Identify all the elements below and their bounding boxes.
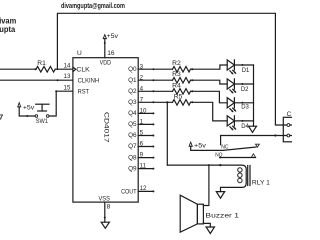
clock wedge on pin 14: [73, 67, 76, 72]
svg-text:R4: R4: [172, 82, 181, 89]
wire Q3 branch down to relay node: [166, 102, 168, 165]
svg-text:D2: D2: [241, 86, 249, 93]
ground below buzzer: [206, 227, 214, 234]
svg-text:7: 7: [0, 112, 3, 121]
relay core bars: [247, 166, 249, 186]
svg-text:RST: RST: [78, 89, 89, 96]
LED D2: [227, 79, 253, 94]
wire CLK node to connector (top routed wire): [57, 13, 286, 125]
svg-text:Q6: Q6: [128, 132, 137, 139]
wire R2 to LED D1: [191, 65, 228, 69]
switch SW1 contacts: [35, 115, 38, 118]
connector CON (cut at right edge): [283, 117, 295, 142]
op IC body U1 CD4017: [73, 58, 138, 202]
junction dot buzzer tap: [208, 164, 210, 166]
svg-text:SW1: SW1: [36, 118, 49, 125]
svg-text:C: C: [287, 111, 292, 118]
svg-text:upta: upta: [0, 25, 16, 34]
svg-text:Q7: Q7: [128, 143, 137, 150]
svg-text:Q9: Q9: [128, 165, 137, 172]
connector pin 2 circle: [287, 134, 290, 137]
right side pin numbers: [140, 63, 147, 192]
junction dot on CLK row: [34, 68, 36, 70]
wire pin 15 (RST) to SW1: [49, 91, 73, 116]
buzzer Buzzer1 driver: [197, 204, 203, 224]
svg-text:8: 8: [107, 204, 111, 211]
LED cathode bus: [253, 65, 255, 126]
pin 16 VDD stub: [104, 39, 106, 58]
svg-text:R2: R2: [172, 60, 181, 67]
wire into pin 14 (CLK row): [0, 68, 36, 70]
connector pin 1 circle: [287, 124, 290, 127]
relay coil RLY1 turns: [238, 168, 242, 172]
svg-text:+5v: +5v: [194, 143, 207, 150]
svg-text:16: 16: [107, 50, 115, 57]
svg-text:15: 15: [64, 84, 71, 91]
svg-text:Q5: Q5: [128, 121, 137, 128]
wire buzzer feed: [203, 165, 209, 205]
wire Q1 row: [138, 79, 172, 81]
ground below VSS: [101, 222, 109, 228]
svg-text:U: U: [77, 50, 82, 57]
junction dot NO/coil: [219, 164, 221, 166]
svg-text:divamgupta@gmail.com: divamgupta@gmail.com: [61, 1, 125, 10]
resistor R1: [36, 66, 55, 72]
wire R3 to LED D2: [191, 80, 228, 84]
svg-text:Q0: Q0: [128, 66, 137, 73]
svg-text:D3: D3: [241, 103, 249, 110]
wire into pin 13 (CLKINH row): [0, 79, 73, 81]
junction dot Q3 branch: [166, 101, 168, 103]
svg-text:RLY 1: RLY 1: [252, 180, 271, 186]
wire R5 to LED D4: [191, 102, 228, 121]
svg-text:R3: R3: [172, 71, 181, 78]
wire relay NC terminal to connector pin2: [221, 136, 287, 145]
NC contact: [256, 144, 260, 147]
wire relay coil node: [167, 165, 246, 192]
power +5v at VDD: [103, 35, 106, 39]
wire Q0 row: [138, 68, 172, 70]
svg-text:14: 14: [64, 62, 71, 69]
svg-text:+5v: +5v: [23, 105, 35, 112]
svg-text:13: 13: [64, 73, 71, 80]
svg-text:CLKINH: CLKINH: [78, 77, 100, 84]
right side pin names Q0..Q9 COUT: [121, 66, 137, 195]
pin 8 VSS stub: [104, 202, 106, 222]
svg-text:VDD: VDD: [100, 59, 112, 66]
svg-text:Q4: Q4: [128, 110, 137, 117]
wire SW1 to +5v: [19, 107, 35, 116]
resistor R4: [173, 89, 191, 95]
wire R1 to pin14: [55, 68, 73, 70]
svg-text:Q2: Q2: [128, 88, 137, 95]
power +5v at SW1: [18, 103, 21, 107]
svg-text:R5: R5: [174, 93, 183, 100]
LED D3: [227, 98, 253, 113]
svg-text:CD4017: CD4017: [103, 112, 110, 143]
LED D4: [227, 116, 253, 131]
switch SW1 actuator: [38, 110, 47, 112]
wire Q2 row: [138, 90, 172, 92]
ground below LED bus: [249, 126, 257, 132]
pin13 end dot: [57, 79, 59, 81]
svg-text:CLK: CLK: [76, 66, 90, 73]
resistor R3: [173, 78, 191, 84]
svg-text:R1: R1: [37, 60, 46, 67]
buzzer cone: [180, 195, 197, 232]
pin stubs Q4..Q9 COUT (unconnected): [138, 113, 153, 191]
svg-text:D1: D1: [242, 67, 250, 74]
SW1 left pin dot: [26, 115, 28, 117]
junction dot on NC wire: [274, 134, 276, 136]
svg-text:VSS: VSS: [99, 196, 110, 203]
pin15 end dot: [55, 90, 57, 92]
wire R4 to LED D3: [191, 91, 228, 103]
svg-text:Buzzer 1: Buzzer 1: [205, 213, 239, 220]
ground below relay coil: [216, 192, 224, 199]
NO terminal stub: [220, 157, 256, 159]
LED D1: [227, 60, 253, 75]
buzzer bottom terminal: [203, 223, 210, 227]
wire relay pole / armature: [191, 146, 257, 150]
resistor R2: [173, 67, 191, 73]
svg-text:Q8: Q8: [128, 154, 137, 161]
pin end dots: [152, 68, 154, 192]
resistor R5: [173, 100, 191, 106]
svg-text:COUT: COUT: [121, 188, 137, 195]
NO contact: [251, 154, 255, 158]
power +5v at relay pole: [189, 142, 192, 146]
svg-text:Q3: Q3: [128, 99, 137, 106]
svg-text:Q1: Q1: [128, 77, 137, 84]
wire Q3 row: [138, 101, 172, 103]
svg-text:+5v: +5v: [107, 33, 120, 40]
